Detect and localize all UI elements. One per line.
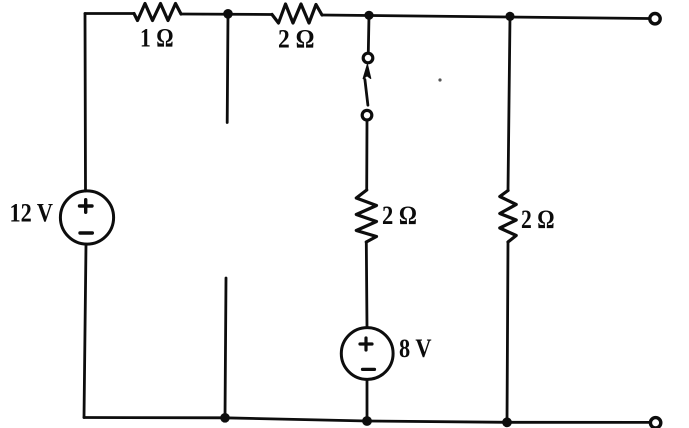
- resistor R2 2ohm zigzag: [272, 4, 322, 23]
- resistor R3 2ohm vertical zigzag: [356, 190, 376, 242]
- resistor R1 1ohm zigzag: [134, 4, 181, 21]
- source V1 12V circle: [60, 191, 113, 244]
- switch S1 top contact circle: [363, 53, 373, 63]
- node n6 (bottom, x=367): [362, 416, 372, 426]
- wire switch to R3: [365, 121, 368, 190]
- node n2 (top, x=369): [364, 11, 373, 20]
- V1 plus sign: [80, 200, 93, 213]
- resistor R4 2ohm vertical zigzag: [500, 191, 516, 243]
- node n3 (top, x=510): [505, 12, 514, 21]
- V2 plus sign: [360, 338, 372, 350]
- svg-text:1 Ω: 1 Ω: [140, 24, 174, 53]
- wire bottom: [84, 418, 649, 423]
- svg-text:8 V: 8 V: [399, 334, 432, 363]
- V2 minus sign: [363, 368, 375, 371]
- wire right branch upper: [508, 16, 510, 190]
- node n7 (bottom, x=507): [502, 417, 512, 427]
- scan speckle: [438, 78, 441, 81]
- switch S1 blade with arrowhead: [363, 65, 371, 106]
- terminal b (bottom right open circle): [650, 418, 660, 428]
- wire left branch lower: [84, 244, 86, 417]
- wire right branch lower: [507, 242, 508, 422]
- V1 minus sign: [80, 231, 92, 234]
- wire top-left segment: [85, 12, 134, 15]
- wire stub up from bottom (open branch lower): [225, 278, 226, 418]
- switch S1 bottom contact circle: [362, 110, 372, 120]
- wire left branch upper: [84, 14, 87, 192]
- svg-text:12 V: 12 V: [10, 199, 54, 228]
- terminal a (top right open circle): [650, 14, 660, 24]
- node n1 (top, x=228): [223, 9, 233, 19]
- wire R3 to V2: [365, 242, 369, 328]
- wire top right segment: [322, 15, 649, 19]
- node n5 (bottom, x=225): [220, 413, 230, 423]
- wire V2 to bottom node: [366, 379, 369, 421]
- svg-text:2 Ω: 2 Ω: [278, 25, 315, 54]
- source V2 8V circle: [341, 328, 393, 380]
- wire between R1 and R2: [181, 13, 272, 16]
- wire stub from node n1 down (open branch upper): [226, 14, 230, 123]
- svg-text:2 Ω: 2 Ω: [521, 205, 555, 234]
- wire from n2 to switch: [367, 15, 371, 52]
- svg-text:2 Ω: 2 Ω: [382, 201, 417, 230]
